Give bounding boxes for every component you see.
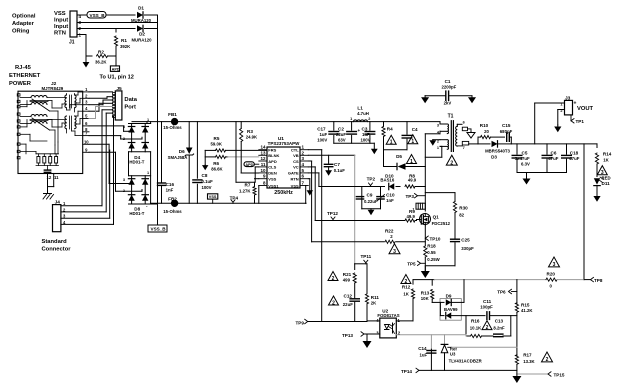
svg-text:R5: R5	[214, 136, 220, 141]
svg-text:HD01-T: HD01-T	[129, 211, 144, 216]
svg-text:10: 10	[84, 139, 89, 144]
svg-text:2: 2	[546, 357, 549, 363]
svg-text:POWER: POWER	[9, 81, 32, 87]
wire T1 pin4 to drain	[425, 133, 440, 135]
net label APD oval	[244, 162, 254, 167]
ground below C7	[328, 168, 330, 171]
svg-text:1K: 1K	[403, 291, 409, 296]
warning triangle near C4	[408, 135, 418, 144]
svg-text:FDC2512: FDC2512	[432, 221, 451, 226]
svg-text:TP9: TP9	[296, 320, 305, 325]
svg-text:3x47uF: 3x47uF	[515, 156, 530, 161]
J2 winding crossover diagonal 2	[32, 118, 50, 130]
svg-text:100pF: 100pF	[480, 304, 493, 309]
wire C9/C10 branch	[361, 187, 363, 209]
open ground T1 secondary center tap	[470, 132, 472, 133]
svg-text:VSS: VSS	[54, 11, 66, 17]
svg-text:R3: R3	[247, 129, 253, 134]
net label VSS_B (bottom)	[148, 225, 167, 232]
svg-text:R21: R21	[343, 272, 352, 277]
svg-text:C2: C2	[338, 127, 344, 132]
wire U1 pin1 CTL down	[308, 149, 321, 151]
wire D9 up to rail	[463, 280, 465, 303]
svg-text:APD: APD	[245, 163, 253, 167]
svg-text:VOUT: VOUT	[577, 106, 594, 112]
capacitor C14 1uF	[427, 350, 436, 352]
svg-text:22uF: 22uF	[343, 302, 353, 307]
svg-text:RJ-45: RJ-45	[15, 65, 32, 71]
wire R9 gate line	[315, 220, 405, 222]
T1 primary top winding	[440, 123, 447, 125]
wire CLS pin to R7 node	[254, 167, 256, 182]
svg-text:330pF: 330pF	[461, 246, 474, 251]
svg-text:D9: D9	[446, 294, 452, 299]
svg-text:11: 11	[54, 175, 59, 180]
wire U1 pin5 GATE down	[308, 172, 319, 174]
J2 internal connection wires	[20, 133, 30, 135]
svg-text:D6: D6	[179, 149, 185, 154]
wire U1 pin4 VC down	[308, 166, 315, 168]
svg-text:Input: Input	[54, 18, 68, 24]
svg-text:D3: D3	[491, 155, 497, 160]
diode bridge D8 HD01-T	[131, 176, 133, 204]
wire rail to T1 pin3	[439, 122, 441, 124]
warning triangle in R16 box	[482, 321, 492, 330]
diode D3 MBRS540T3	[478, 143, 490, 145]
wire snubber bottom to source node	[425, 265, 455, 267]
svg-text:20: 20	[484, 129, 489, 134]
svg-text:1nF: 1nF	[386, 198, 394, 203]
svg-text:SMAJ58A: SMAJ58A	[168, 155, 188, 160]
svg-text:2: 2	[332, 276, 335, 282]
wire J2 pin9 down to bridge D8 lower input	[89, 151, 116, 153]
svg-text:MBRS540T3: MBRS540T3	[485, 149, 510, 154]
svg-text:DEN: DEN	[268, 171, 277, 176]
wire R22 current sense line	[312, 241, 384, 243]
ground arrow bottom rail	[516, 374, 518, 376]
wire bridge D4 minus down	[128, 152, 130, 176]
svg-text:R7: R7	[245, 183, 251, 188]
svg-text:RTN: RTN	[290, 177, 298, 182]
svg-text:1.27K: 1.27K	[239, 188, 251, 193]
svg-text:1: 1	[411, 139, 414, 145]
svg-text:250kHz: 250kHz	[274, 190, 293, 196]
svg-text:4.7uH: 4.7uH	[357, 111, 369, 116]
svg-text:D5: D5	[396, 154, 402, 159]
svg-text:TP14: TP14	[401, 369, 412, 374]
diode D10 BAS16	[389, 183, 395, 189]
test point TP9	[305, 319, 308, 323]
svg-text:2: 2	[332, 300, 335, 306]
svg-text:R13: R13	[421, 291, 430, 296]
J2 transformer winding upper-left pair	[31, 96, 47, 98]
J2 isolation transformer lower	[65, 116, 67, 129]
svg-text:VC: VC	[293, 165, 299, 170]
resistor R4	[383, 122, 385, 126]
ground below R2	[85, 56, 87, 62]
capacitor C10 1nF	[377, 196, 384, 198]
wire TP9 bus	[308, 321, 367, 323]
svg-text:GATE: GATE	[288, 171, 299, 176]
svg-text:6.3V: 6.3V	[521, 162, 530, 167]
ferrite bead FB2 15-Ohms	[171, 200, 177, 206]
capacitor C5 3x47uF 6.3V	[516, 144, 518, 154]
wire J1 pin1 down	[77, 34, 86, 36]
wire TP11 node	[355, 263, 367, 265]
shunt reference U3 TLV431ACDBZR	[444, 335, 446, 345]
wire J3 pin1 to output rail	[535, 102, 565, 104]
wire feedback divider vertical	[516, 280, 518, 304]
wire J1 pin2 to D2	[77, 28, 135, 30]
wire C16 branch	[161, 122, 163, 182]
test point TP5	[418, 261, 421, 265]
svg-text:3: 3	[123, 178, 125, 182]
resistor R5 59.0K	[205, 149, 215, 151]
svg-text:R2: R2	[98, 50, 104, 55]
transistor Q1 FDC2512	[420, 214, 431, 225]
svg-text:J1: J1	[69, 40, 75, 46]
svg-text:14: 14	[260, 145, 266, 150]
wire R5/R6 left branch	[204, 150, 206, 165]
svg-text:C12: C12	[344, 293, 353, 298]
ground arrow below TP13 line	[366, 334, 368, 341]
svg-text:3: 3	[553, 262, 556, 268]
svg-text:C18: C18	[570, 151, 579, 156]
warning triangle near C12	[329, 296, 339, 305]
svg-text:3: 3	[123, 125, 125, 129]
wires J2 pins 1-4 to J5	[89, 91, 113, 93]
svg-text:15-Ohms: 15-Ohms	[163, 125, 182, 130]
svg-text:D2: D2	[139, 32, 145, 37]
wire J1 pin3 right	[77, 22, 158, 24]
svg-text:FB1: FB1	[168, 112, 177, 117]
svg-text:C17: C17	[317, 127, 326, 132]
wire Ref line to divider junction	[452, 346, 517, 348]
resistor R21 499	[354, 264, 356, 270]
svg-text:CTL: CTL	[291, 148, 299, 153]
svg-text:680pF: 680pF	[500, 129, 513, 134]
resistor R17 13.3K	[515, 355, 518, 365]
svg-text:D1: D1	[138, 5, 144, 10]
svg-text:41.2K: 41.2K	[521, 308, 533, 313]
resistor R10 20	[478, 136, 480, 138]
svg-text:1: 1	[437, 146, 439, 150]
T1 core	[450, 121, 452, 152]
svg-text:RTN: RTN	[54, 31, 66, 37]
capacitor C12 22uF	[350, 298, 359, 300]
ground arrow below R18	[424, 266, 426, 271]
svg-text:13.3K: 13.3K	[523, 359, 535, 364]
warning triangle near R14	[597, 166, 607, 175]
J5 left pin ticks	[113, 92, 116, 94]
wire J2 pin5 to J5 pin5 (gray)	[89, 118, 96, 120]
wire drain vertical	[424, 134, 426, 211]
svg-text:TP15: TP15	[554, 373, 565, 378]
capacitor C6 47uF	[546, 144, 548, 154]
svg-text:3: 3	[393, 249, 396, 255]
J2 isolation transformer upper	[65, 95, 67, 108]
wire bridge D8 minus to VSS_B	[151, 203, 158, 205]
svg-text:RED: RED	[602, 176, 611, 181]
resistor R12 1K	[412, 280, 414, 285]
resistor R30 82	[453, 202, 456, 213]
svg-text:R1: R1	[121, 38, 127, 43]
resistor R3 24.9K	[240, 122, 242, 129]
svg-text:CS: CS	[293, 159, 299, 164]
svg-text:1uF: 1uF	[420, 352, 428, 357]
svg-text:C13: C13	[495, 318, 504, 323]
ground arrow C1 right	[471, 96, 473, 98]
wire branch from rail to R7 node	[235, 122, 237, 183]
resistor R13 10K	[431, 280, 433, 286]
wire Q1 source down	[424, 226, 426, 246]
svg-text:63V: 63V	[338, 138, 346, 143]
svg-text:TP12: TP12	[327, 211, 338, 216]
T1 primary bottom winding	[440, 139, 447, 141]
dual diode D9 BAV99	[440, 299, 461, 321]
wire D6 branch	[188, 122, 190, 148]
svg-text:C9: C9	[367, 193, 373, 198]
resistor R6 86.6K	[205, 156, 215, 158]
svg-text:499: 499	[343, 278, 351, 283]
capacitor C15 680pF	[506, 133, 508, 141]
svg-text:Connector: Connector	[42, 247, 72, 253]
wire input rail top	[132, 121, 171, 123]
svg-text:49.9: 49.9	[407, 214, 416, 219]
svg-text:49.9: 49.9	[408, 178, 417, 183]
wire bridge D8 to VSS rail	[150, 202, 152, 205]
svg-text:VSS_B: VSS_B	[90, 13, 106, 18]
svg-text:47uF: 47uF	[569, 156, 579, 161]
diode D5	[384, 166, 397, 168]
wire D1 cathode to node	[145, 14, 158, 16]
diode D1 MURA120	[137, 12, 143, 18]
svg-text:6: 6	[463, 121, 465, 125]
svg-text:47uF: 47uF	[548, 156, 558, 161]
capacitor C7 0.1uF	[328, 155, 330, 163]
wire output rail	[511, 143, 597, 145]
wire U1 pin8 down to VSS rail	[258, 186, 260, 204]
svg-text:Q1: Q1	[433, 215, 440, 220]
wire U2 pin1 to R12	[396, 320, 413, 322]
capacitor C9 0.22uF	[356, 196, 363, 198]
svg-text:2200pF: 2200pF	[442, 84, 457, 89]
svg-text:TP6: TP6	[497, 290, 506, 295]
svg-text:Port: Port	[124, 105, 136, 111]
svg-text:C11: C11	[483, 299, 492, 304]
svg-text:To U1, pin 12: To U1, pin 12	[100, 75, 134, 81]
svg-text:8.2nF: 8.2nF	[493, 325, 505, 330]
wire snubber across Q1	[425, 192, 455, 194]
svg-text:2: 2	[450, 160, 453, 166]
svg-text:TPS23753APW: TPS23753APW	[268, 141, 301, 146]
svg-text:392K: 392K	[120, 44, 131, 49]
svg-text:TP1: TP1	[576, 119, 585, 124]
J2 transformer winding lower-left pair	[31, 115, 47, 117]
wire U1 pin2 VB right	[308, 154, 354, 156]
svg-text:C16: C16	[166, 182, 175, 187]
svg-text:Adapter: Adapter	[12, 21, 35, 27]
svg-text:24.9K: 24.9K	[246, 135, 258, 140]
svg-text:2: 2	[123, 137, 125, 141]
wire ORing node down to VSS_B	[157, 15, 159, 225]
J2 termination resistors	[37, 157, 40, 164]
svg-text:0.1uF: 0.1uF	[334, 168, 346, 173]
svg-text:R10: R10	[480, 123, 489, 128]
resistor R1 392K	[115, 29, 117, 33]
capacitor C11 100pF	[486, 312, 488, 320]
svg-text:C25: C25	[461, 237, 470, 242]
resistor R15 41.2K	[515, 303, 518, 313]
ground below R5/R6	[204, 164, 206, 166]
wire snubber branch up	[477, 137, 479, 144]
wire bridge D4 pin1 stub to rail	[146, 122, 148, 124]
svg-text:10.1K: 10.1K	[470, 325, 482, 330]
svg-text:1: 1	[410, 159, 413, 165]
ground arrow output caps	[526, 173, 528, 179]
wire R3 to DEN pin	[241, 172, 259, 174]
svg-text:TP13: TP13	[342, 333, 353, 338]
svg-text:36.2K: 36.2K	[95, 60, 107, 65]
svg-text:R4: R4	[387, 127, 393, 132]
svg-text:2: 2	[368, 117, 370, 121]
svg-text:VB: VB	[293, 153, 299, 158]
svg-text:7: 7	[463, 146, 465, 150]
svg-text:1uF: 1uF	[362, 132, 370, 137]
svg-text:1: 1	[350, 117, 352, 121]
svg-text:1: 1	[390, 140, 393, 146]
wire output ground bus	[517, 172, 567, 174]
network box R16 10.1K C13 8.2nF	[465, 316, 467, 336]
ground below D11	[596, 195, 598, 197]
wire U1 pin9 to VSS rail	[255, 178, 259, 180]
ground arrow C1 left	[424, 96, 426, 98]
wire U1 pin7 wrap to VSS rail	[305, 186, 307, 204]
svg-text:11: 11	[261, 162, 266, 167]
svg-text:22uF: 22uF	[336, 132, 346, 137]
svg-text:59.0K: 59.0K	[211, 141, 223, 146]
wire VSS rail (FB2 line)	[151, 202, 172, 204]
resistor R11 2K	[366, 264, 368, 293]
svg-text:86.6K: 86.6K	[211, 166, 223, 171]
ground below C9 C10	[370, 209, 372, 210]
wire output rail down to feedback rail	[583, 144, 585, 280]
svg-text:U3: U3	[450, 352, 456, 357]
svg-text:2kV: 2kV	[444, 101, 452, 106]
LED D11 RED	[594, 178, 600, 184]
svg-text:MJTR8429: MJTR8429	[42, 86, 64, 91]
wire rail to TP8	[557, 279, 584, 281]
svg-text:15-Ohms: 15-Ohms	[163, 209, 182, 214]
wire R11 down to U2 pin4 vertical	[366, 315, 368, 321]
svg-text:ORing: ORing	[12, 29, 30, 35]
svg-text:12: 12	[260, 156, 266, 161]
wire J2 pin6 to bridge D4	[89, 125, 124, 127]
svg-text:TP8: TP8	[594, 278, 603, 283]
svg-text:APD: APD	[112, 67, 120, 71]
ground arrow below cap bus	[373, 143, 375, 149]
svg-text:0.55: 0.55	[427, 250, 436, 255]
wire J1 pin4 to VSS_B to D1	[77, 14, 87, 16]
svg-text:2: 2	[405, 279, 408, 285]
capacitor C8 0.1uF 100V	[193, 179, 202, 181]
svg-text:APD: APD	[268, 159, 277, 164]
hatched pad near Q1	[416, 203, 425, 209]
capacitor C18 47uF	[566, 144, 568, 154]
svg-text:100V: 100V	[361, 138, 371, 143]
svg-text:VSS: VSS	[268, 177, 276, 182]
svg-text:C8: C8	[202, 173, 208, 178]
wire gate drive line	[319, 186, 385, 188]
svg-text:C10: C10	[386, 192, 395, 197]
warning triangle above R20	[549, 257, 560, 267]
wire J2 pin7 to bridge D4 lower input	[89, 135, 121, 137]
capacitor C2 22uF 63V	[351, 122, 353, 131]
wire C14 branch	[430, 335, 432, 349]
svg-text:BAV99: BAV99	[444, 307, 458, 312]
svg-text:C1: C1	[445, 79, 451, 84]
svg-text:R20: R20	[547, 271, 556, 276]
svg-text:10: 10	[260, 168, 266, 173]
svg-text:TP5: TP5	[407, 262, 416, 267]
T1 secondary pin6 stub	[457, 123, 462, 125]
ground J3	[557, 125, 559, 127]
capacitor C25 330pF	[451, 238, 460, 240]
wire J3 pin2 to ground	[558, 109, 565, 111]
resistor R9 49.9	[405, 219, 415, 222]
test point TP13	[361, 332, 364, 336]
svg-text:100V: 100V	[317, 138, 327, 143]
wire TP13 to U2 pin3	[364, 333, 380, 335]
svg-text:R15: R15	[521, 303, 530, 308]
wire low rail RTN	[413, 279, 434, 281]
svg-text:MURA120: MURA120	[131, 38, 152, 43]
warning triangle below T1	[446, 155, 457, 165]
resistor R14 1K	[596, 144, 598, 148]
svg-text:R18: R18	[427, 244, 436, 249]
svg-text:10K: 10K	[421, 296, 430, 301]
warning triangle near R21	[328, 272, 338, 281]
svg-text:BLNK: BLNK	[268, 153, 279, 158]
svg-text:0.1uF: 0.1uF	[202, 179, 214, 184]
svg-text:FB2: FB2	[168, 197, 177, 202]
resistor R2 36.2K	[86, 55, 92, 57]
wire VB line down to TP11 (gray)	[354, 155, 356, 263]
svg-text:TP3: TP3	[406, 194, 415, 199]
svg-text:VSS: VSS	[291, 183, 299, 188]
test point TP1	[571, 119, 574, 123]
svg-text:R12: R12	[402, 285, 411, 290]
wire U2 pin2 right	[396, 334, 466, 336]
warning triangle near R22	[389, 244, 400, 254]
svg-text:C14: C14	[418, 346, 427, 351]
wire gate stub	[419, 219, 422, 221]
wire snubber down to D5 line	[383, 150, 385, 167]
svg-text:0.25W: 0.25W	[427, 257, 440, 262]
net label VSS_B (top)	[87, 12, 106, 19]
wire bridge D4 plus to input rail	[150, 122, 152, 124]
connector J1	[70, 11, 77, 37]
test point TP10	[425, 236, 428, 240]
svg-text:2K: 2K	[371, 301, 377, 306]
wire TP15 line	[517, 373, 548, 375]
test point TP14	[416, 368, 419, 372]
svg-text:CLS: CLS	[268, 165, 276, 170]
svg-text:C6: C6	[551, 151, 557, 156]
svg-text:TP11: TP11	[361, 254, 372, 259]
svg-text:C7: C7	[334, 162, 340, 167]
svg-text:1uF: 1uF	[320, 132, 328, 137]
